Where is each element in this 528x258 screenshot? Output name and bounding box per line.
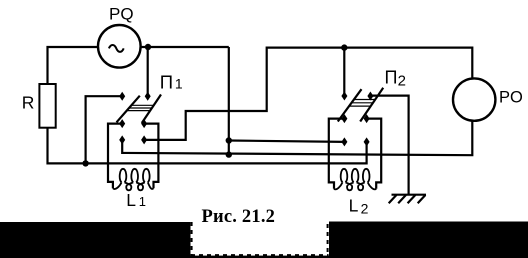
wire: П1 mid-left stub and L1 frame left side (108, 124, 122, 189)
switch П2 linkage hatching (349, 100, 375, 107)
inductor L1 coil (113, 169, 154, 191)
wire: П1 top-left contact left and down to bus B (86, 96, 123, 163)
svg-text:П: П (385, 68, 398, 88)
wire: PQ right terminal to center riser elbow (141, 46, 229, 48)
junction bus2 / П2 riser (341, 44, 347, 50)
svg-text:L: L (126, 190, 136, 210)
svg-text:L: L (349, 195, 359, 215)
wire: П1 bottom-right contact right, up, right along top bus 2 to PO top (144, 48, 472, 140)
wire: bus A from П1 bottom-left contact to PO bottom terminal (122, 121, 472, 155)
svg-text:П: П (160, 71, 173, 92)
junction bus B / П1 top-left branch (82, 160, 88, 166)
switch П2 contacts (diamonds) (341, 92, 373, 147)
junction at PQ output (145, 44, 151, 50)
wire: П2 top-right contact right and down to ground (370, 96, 408, 195)
svg-text:R: R (22, 93, 35, 113)
wire: П1 mid-right stub and L1 frame right side (144, 124, 158, 189)
svg-text:1: 1 (139, 194, 146, 209)
junction center riser / bus A (226, 151, 232, 157)
AC source PQ (98, 25, 141, 68)
svg-text:2: 2 (361, 201, 369, 217)
wire: riser from top bus 2 down to П2 top-left contact (343, 48, 345, 96)
wire: П2 mid-right stub and L2 frame right side (367, 119, 382, 189)
wire: П2 mid-left stub and L2 frame left side (329, 119, 345, 189)
ground (389, 195, 426, 204)
resistor R (39, 84, 55, 128)
wire: bus B from R bottom through dots to П2 bottom-right contact (48, 128, 367, 164)
text box dashed border left (191, 222, 193, 256)
switch П2 blades (338, 88, 383, 122)
switch П1 linkage hatching (127, 105, 154, 110)
svg-text:PO: PO (499, 88, 523, 106)
svg-text:Рис. 21.2: Рис. 21.2 (202, 207, 276, 227)
text box dashed border bottom (191, 254, 329, 256)
svg-text:1: 1 (175, 76, 183, 92)
measuring device PO (453, 78, 495, 120)
wire: R top lead up and right to PQ left terminal (48, 47, 99, 84)
inductor L2 coil (334, 169, 376, 191)
black bar right (329, 222, 528, 258)
svg-text:2: 2 (398, 72, 406, 89)
wire: center riser x=228.8 from top bus down to bus A (228, 47, 230, 155)
junction center riser / П2 bus (226, 137, 232, 143)
wire: bus from center riser to П2 bottom-left contact (229, 141, 345, 142)
black strip below text box (191, 256, 330, 258)
switch П1 blades (117, 95, 162, 124)
black bar left (0, 222, 191, 258)
wire: riser from top bus down to П1 top-right contact (147, 47, 149, 96)
text box dashed border right (327, 224, 329, 256)
switch П1 contacts (diamonds) (119, 92, 151, 145)
svg-text:PQ: PQ (109, 4, 134, 23)
